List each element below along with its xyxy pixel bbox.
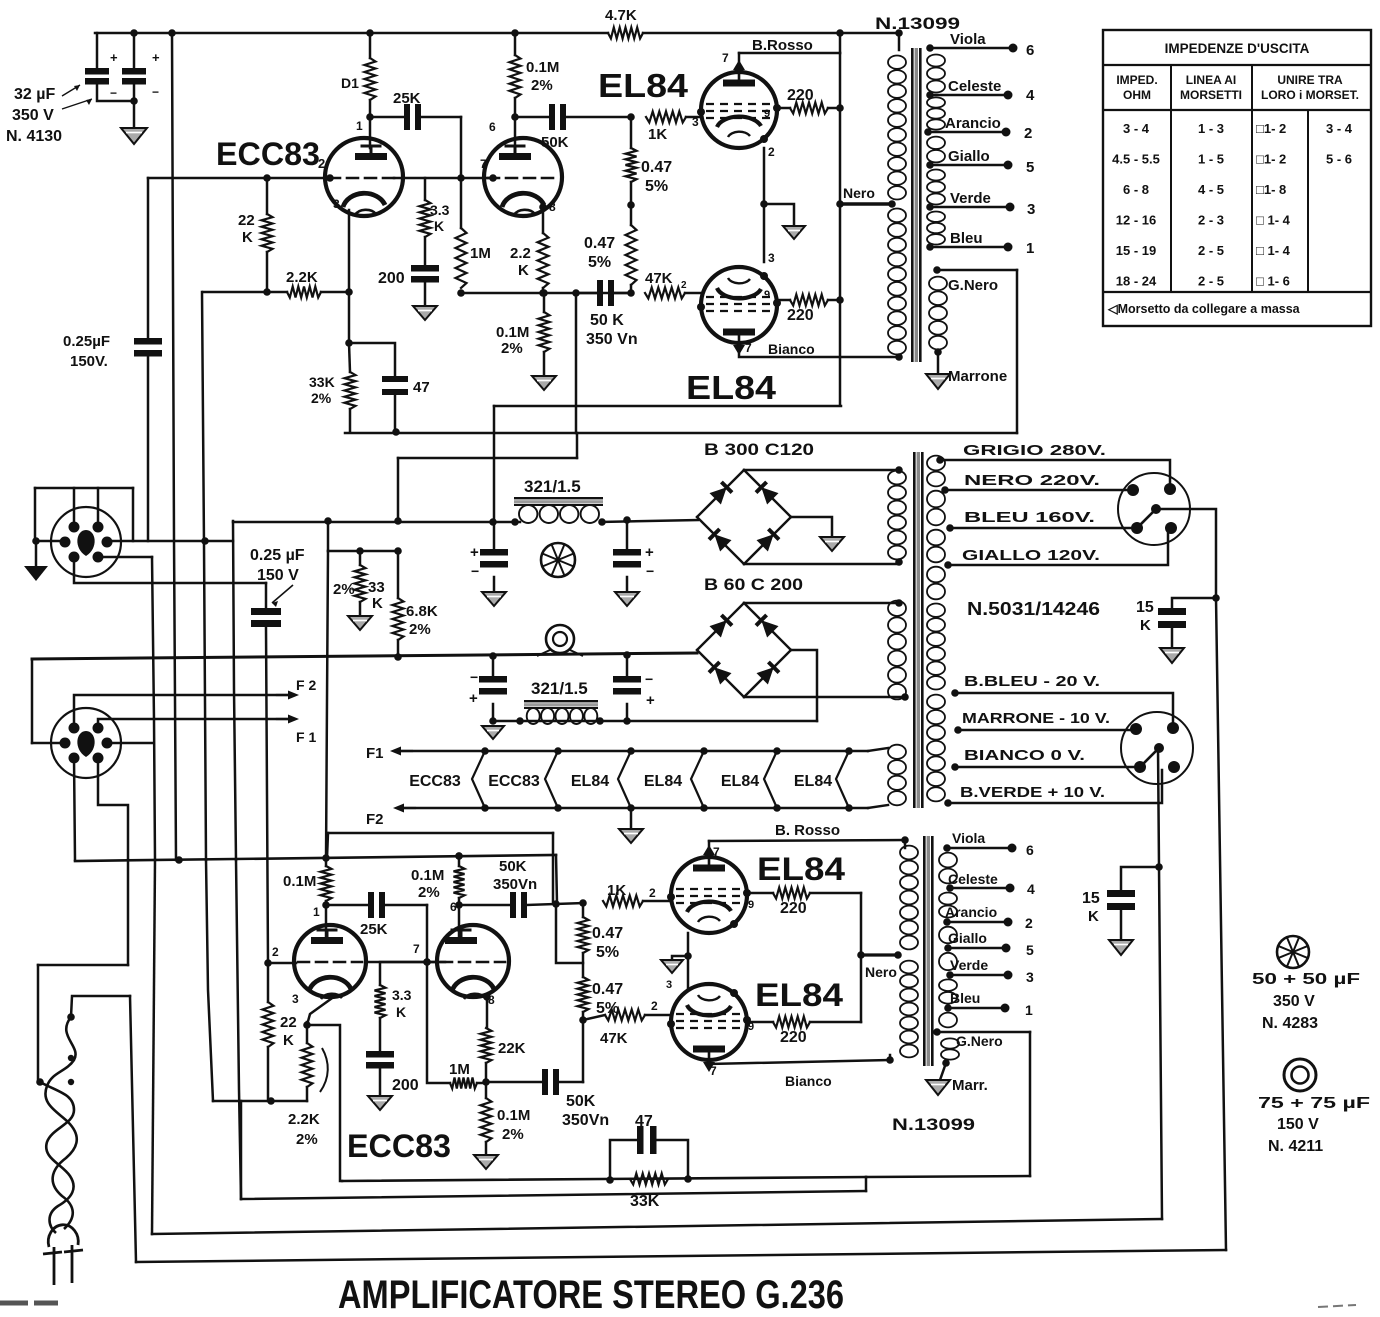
svg-text:AMPLIFICATORE STEREO G.236: AMPLIFICATORE STEREO G.236 (338, 1273, 844, 1317)
svg-text:□ 1- 4: □ 1- 4 (1256, 243, 1291, 258)
wire (898, 33, 901, 50)
junction (684, 1175, 692, 1183)
wire (614, 292, 631, 295)
svg-text:K: K (283, 1032, 294, 1049)
junction (627, 289, 635, 297)
junction (836, 200, 844, 208)
svg-text:0.1M: 0.1M (496, 324, 529, 341)
svg-text:33K: 33K (309, 374, 335, 390)
svg-text:2%: 2% (311, 390, 332, 406)
resistor 1M lower (450, 1078, 477, 1089)
svg-text:2: 2 (318, 156, 325, 171)
wire (267, 1047, 270, 1101)
svg-text:3: 3 (768, 251, 775, 265)
ground filter cap right (615, 592, 639, 606)
wire (552, 833, 555, 903)
svg-text:□ 1- 4: □ 1- 4 (1256, 213, 1291, 228)
wire box right edge (1016, 270, 1019, 433)
wire (385, 904, 427, 907)
junction (1002, 128, 1011, 137)
ground heater (619, 829, 643, 843)
resistor 0.1M lower lead (325, 861, 328, 866)
wire (349, 343, 350, 372)
resistor 0.1M 2% lower (454, 866, 465, 898)
resistor 0.47 5% b (626, 225, 637, 285)
svg-text:5: 5 (1026, 942, 1034, 958)
wire feed vertical x=576 (575, 293, 578, 433)
wire cathode lead t1 (348, 210, 351, 292)
junction (489, 652, 497, 660)
ground 15K (1160, 648, 1184, 663)
leader arrow (272, 585, 293, 603)
junction (836, 104, 844, 112)
choke L2 winding (527, 708, 540, 724)
wire heater divider (764, 751, 777, 808)
junction (455, 852, 463, 860)
svg-text:G.Nero: G.Nero (956, 1033, 1003, 1049)
wire socket1 bottom-left pin (74, 557, 266, 583)
svg-text:UNIRE TRA: UNIRE TRA (1277, 73, 1343, 87)
wire V1 cathode to V2 (763, 148, 766, 262)
svg-text:7: 7 (722, 51, 729, 65)
svg-text:0.25µF: 0.25µF (63, 333, 110, 350)
wire tap Viola 2 (947, 847, 1012, 850)
svg-text:LORO i MORSET.: LORO i MORSET. (1261, 88, 1359, 102)
wire 50K cap right (566, 116, 631, 119)
svg-text:IMPEDENZE D'USCITA: IMPEDENZE D'USCITA (1165, 41, 1310, 56)
corner scrap text (0, 1301, 58, 1306)
svg-text:5%: 5% (596, 1000, 619, 1017)
svg-text:N.5031/14246: N.5031/14246 (967, 599, 1100, 619)
junction (1008, 844, 1017, 853)
wire plate resistor V3 (747, 892, 773, 895)
resistor 47K upper (645, 288, 685, 299)
resistor 2.2K upper (287, 287, 321, 298)
svg-text:K: K (372, 595, 383, 612)
capacitor 47 feedback (637, 1126, 644, 1154)
junction (951, 689, 959, 697)
capacitor filter - right (613, 676, 641, 683)
svg-text:IMPED.: IMPED. (1116, 73, 1157, 87)
ground Marrone (926, 374, 950, 389)
svg-text:3: 3 (333, 197, 340, 211)
junction (954, 726, 962, 734)
svg-text:350 V: 350 V (12, 107, 54, 124)
wire 50K cap2 lower (486, 1081, 542, 1084)
power cord twisted pair (45, 1017, 76, 1229)
junction (68, 1079, 74, 1085)
svg-text:350Vn: 350Vn (493, 876, 537, 893)
wire (582, 903, 585, 917)
svg-text:G.Nero: G.Nero (948, 277, 998, 294)
svg-text:5%: 5% (645, 178, 668, 195)
junction (322, 901, 330, 909)
svg-text:N. 4130: N. 4130 (6, 128, 62, 145)
svg-text:2: 2 (768, 145, 775, 159)
wire (397, 640, 400, 657)
wire choke2 node (493, 720, 817, 723)
svg-text:33: 33 (368, 579, 385, 596)
svg-text:K: K (518, 262, 529, 279)
junction (901, 693, 909, 701)
resistor 4.7K (608, 28, 643, 39)
resistor 2.2K 2% lower (302, 1043, 313, 1087)
junction (1004, 91, 1013, 100)
wire (133, 85, 136, 129)
svg-text:Nero: Nero (843, 185, 875, 201)
wire tap Viola (930, 47, 1013, 50)
junction (579, 1016, 587, 1024)
ground 33K (348, 616, 372, 630)
svg-text:1: 1 (313, 905, 320, 919)
resistor 220 V4 (773, 1017, 810, 1028)
resistor 3.3K lower (375, 985, 386, 1018)
wire (348, 292, 351, 343)
wire (542, 288, 545, 293)
wire Marrone (937, 352, 940, 374)
wire (685, 292, 701, 295)
wire B+ rail to output transformer (643, 32, 899, 35)
resistor 33K 2% mid (355, 565, 366, 602)
junction (356, 547, 364, 555)
svg-text:47: 47 (413, 379, 430, 396)
wire box2 bottom (866, 1176, 1030, 1177)
junction (1002, 944, 1011, 953)
junction (598, 518, 606, 526)
heater winding (888, 745, 906, 759)
wire cathode t3 (307, 996, 335, 1025)
output transformer T1 N.13099 (888, 48, 947, 362)
wire heater divider (545, 751, 558, 808)
junction (423, 958, 431, 966)
wire cathodes V3V4 (687, 933, 690, 990)
svg-text:7: 7 (480, 157, 487, 171)
junction (1006, 203, 1015, 212)
junction (901, 836, 909, 844)
svg-text:1M: 1M (449, 1061, 470, 1078)
junction (540, 289, 548, 297)
svg-text:350 Vn: 350 Vn (586, 331, 638, 348)
svg-text:EL84: EL84 (598, 67, 689, 104)
wire (379, 1068, 382, 1096)
wire (543, 352, 546, 376)
ground cathodes lower (661, 960, 683, 973)
svg-text:8: 8 (549, 200, 556, 214)
wire (868, 805, 888, 808)
svg-text:6: 6 (489, 120, 496, 134)
wire grid interstage lower (366, 961, 437, 964)
svg-text:Bianco: Bianco (768, 341, 815, 357)
arrow F1 socket (277, 718, 291, 720)
wire (97, 85, 134, 102)
junction (944, 799, 952, 807)
curved arrow (320, 1048, 328, 1092)
junction (627, 747, 635, 755)
wire plate lead t4 (458, 905, 461, 938)
wire (828, 107, 840, 110)
svg-text:2: 2 (681, 280, 687, 291)
junction (933, 1028, 941, 1036)
junction (943, 918, 951, 926)
wire (34, 488, 37, 541)
resistor 33K feedback (630, 1174, 668, 1185)
junction (554, 804, 562, 812)
wire Nero tap thick (840, 202, 892, 205)
svg-text:Marrone: Marrone (948, 368, 1007, 385)
wire F2 rail (405, 807, 868, 810)
junction (926, 203, 934, 211)
wire socket2 bottom-left pin (74, 758, 75, 860)
wire plate lead t3 (325, 905, 328, 938)
leader arrows (62, 85, 92, 109)
svg-text:+: + (110, 50, 118, 65)
junction (606, 1176, 614, 1184)
resistor 0.1M 2% upper (510, 55, 521, 98)
svg-text:1: 1 (356, 119, 363, 133)
wire socket2 left pin (32, 742, 65, 745)
svg-text:K: K (396, 1004, 406, 1020)
wire (744, 696, 905, 699)
wire plate V3 to transformer (709, 840, 905, 841)
svg-text:32 µF: 32 µF (14, 86, 55, 103)
filament voltage selector (1121, 712, 1193, 784)
junction (392, 428, 400, 436)
resistor 1K upper (646, 112, 686, 123)
wire cathode bus lower (213, 1100, 307, 1103)
svg-text:−: − (470, 669, 478, 685)
junction (1004, 971, 1013, 980)
svg-text:3: 3 (666, 979, 672, 991)
capacitor filter - left (479, 676, 507, 683)
svg-text:7: 7 (710, 1064, 717, 1078)
wire (686, 116, 701, 119)
capacitor 32uF #1 lead (96, 33, 99, 68)
junction (516, 717, 524, 725)
wire (630, 182, 633, 225)
wire F1 from socket (98, 719, 291, 728)
svg-text:2 - 5: 2 - 5 (1198, 274, 1224, 289)
wire (643, 900, 671, 903)
junction (700, 804, 708, 812)
wire cathode ground stub (764, 204, 794, 226)
resistor 0.1M 2% tail (539, 312, 550, 352)
choke L1 core (514, 497, 603, 499)
svg-text:EL84: EL84 (721, 773, 759, 790)
wire bottom return 2 (152, 1219, 1162, 1234)
junction (394, 653, 402, 661)
junction (1004, 161, 1013, 170)
junction (836, 29, 844, 37)
wire (427, 962, 450, 1083)
wire tap MARRONE (958, 729, 1138, 732)
ground filter cap (482, 592, 506, 606)
svg-text:EL84: EL84 (757, 851, 845, 887)
svg-text:5: 5 (1026, 159, 1034, 176)
capacitor lead (626, 520, 629, 549)
resistor 3.3K upper (420, 200, 431, 237)
svg-text:OHM: OHM (1123, 88, 1151, 102)
svg-text:Celeste: Celeste (948, 871, 998, 887)
svg-text:ECC83: ECC83 (347, 1128, 451, 1164)
svg-text:0.47: 0.47 (592, 981, 623, 998)
wire (492, 704, 495, 721)
svg-text:K: K (1088, 908, 1099, 925)
wire (630, 808, 633, 829)
svg-text:220: 220 (780, 900, 807, 917)
wire grid drop t2 (460, 117, 463, 178)
svg-text:3: 3 (292, 992, 299, 1006)
svg-text:1K: 1K (607, 882, 626, 899)
junction (773, 747, 781, 755)
wire (556, 855, 557, 903)
wire (868, 748, 888, 751)
wire (485, 1063, 488, 1082)
junction (894, 951, 902, 959)
junction (67, 1013, 75, 1021)
pentode EL84 V3 (667, 845, 751, 933)
wire (266, 252, 269, 292)
junction (303, 1021, 311, 1029)
resistor 0.1M 2% lower lead (458, 856, 461, 866)
wire (458, 898, 461, 905)
wire lower amp top bus (75, 855, 556, 861)
resistor 1M upper (456, 228, 467, 288)
wire (889, 1055, 892, 1060)
svg-text:4.7K: 4.7K (605, 7, 637, 24)
junction (32, 537, 40, 545)
capacitor 50K 350Vn lower (510, 892, 516, 918)
svg-text:5 - 6: 5 - 6 (1326, 152, 1352, 167)
wire (559, 1081, 583, 1084)
wire (152, 860, 155, 1234)
svg-text:+: + (645, 544, 654, 561)
wire (327, 833, 328, 858)
svg-text:Celeste: Celeste (948, 78, 1001, 95)
resistor D1 lead (369, 33, 372, 58)
junction (623, 516, 631, 524)
svg-text:+: + (646, 692, 655, 709)
svg-text:4.5 - 5.5: 4.5 - 5.5 (1112, 152, 1160, 167)
triode ECC83 U1b (484, 138, 562, 216)
svg-text:B.VERDE + 10 V.: B.VERDE + 10 V. (960, 784, 1105, 801)
wire heater vertical x=153 (152, 557, 155, 860)
mains plug (48, 1225, 78, 1247)
wire socket1 top box (35, 487, 133, 490)
svg-text:GRIGIO 280V.: GRIGIO 280V. (963, 442, 1106, 459)
junction (457, 289, 465, 297)
wire 47 cap branch (610, 1140, 637, 1180)
capacitor 32uF #2 lead (133, 33, 136, 68)
wire (1171, 628, 1174, 648)
junction (267, 1097, 275, 1105)
wire 25K cap right (421, 116, 461, 119)
wire choke node (233, 521, 520, 524)
svg-text:BLEU 160V.: BLEU 160V. (964, 509, 1095, 526)
svg-text:0.47: 0.47 (584, 235, 615, 252)
capacitor 0.25uF 150V input2 (251, 608, 281, 615)
resistor 220 V2 (790, 295, 828, 306)
wire (1121, 867, 1159, 890)
svg-text:3 - 4: 3 - 4 (1326, 121, 1353, 136)
wire (582, 953, 585, 977)
wire tap Bleu (930, 246, 1008, 249)
ground 0.1M lower (474, 1155, 498, 1169)
svg-text:2 - 3: 2 - 3 (1198, 213, 1224, 228)
wire rail A (494, 405, 841, 408)
wire (424, 237, 427, 265)
junction (857, 951, 865, 959)
svg-text:F1: F1 (366, 745, 384, 762)
capacitor 25K lower (368, 892, 374, 918)
junction (345, 339, 353, 347)
junction (946, 971, 954, 979)
wire right outer vertical (1216, 598, 1226, 1250)
svg-text:25K: 25K (360, 921, 388, 938)
wire tap Celeste 2 (950, 887, 1010, 890)
svg-text:1: 1 (1026, 240, 1034, 257)
svg-text:9: 9 (764, 289, 770, 301)
svg-text:47K: 47K (600, 1030, 628, 1047)
wire grid drop t4 (426, 905, 429, 962)
junction (926, 44, 934, 52)
svg-text:2: 2 (1025, 915, 1033, 931)
svg-text:4 - 5: 4 - 5 (1198, 182, 1224, 197)
junction (552, 900, 560, 908)
arrow F1 (398, 750, 412, 752)
junction (886, 1056, 894, 1064)
wire cathode bottom bus (461, 292, 631, 295)
svg-text:6.8K: 6.8K (406, 603, 438, 620)
svg-text:Arancio: Arancio (945, 904, 997, 920)
junction (264, 959, 272, 967)
svg-text:□ 1- 6: □ 1- 6 (1256, 274, 1290, 289)
wire F1 rail (402, 750, 868, 753)
wire G.Nero 2 (937, 1031, 1030, 1034)
svg-text:2: 2 (272, 945, 279, 959)
wire (379, 1018, 382, 1051)
ground 15K lower (1109, 940, 1133, 955)
capacitor 200 upper (411, 265, 439, 272)
wire (31, 659, 34, 743)
wire (424, 283, 427, 307)
svg-text:1: 1 (1025, 1002, 1033, 1018)
svg-text:2.2K: 2.2K (288, 1111, 320, 1128)
junction (946, 884, 954, 892)
svg-text:6 - 8: 6 - 8 (1123, 182, 1149, 197)
junction (933, 266, 941, 274)
resistor 0.1M 2% lead (514, 33, 517, 55)
svg-text:7: 7 (713, 845, 720, 859)
junction (263, 174, 271, 182)
wire (130, 996, 136, 1262)
svg-text:9: 9 (748, 899, 754, 911)
junction (596, 717, 604, 725)
svg-text:350 V: 350 V (1273, 993, 1315, 1010)
junction (943, 844, 951, 852)
wire (626, 577, 629, 592)
wire grid line lower (268, 962, 296, 965)
junction (926, 91, 934, 99)
wire tap Giallo (930, 164, 1008, 167)
wire (865, 1177, 868, 1191)
svg-text:3: 3 (692, 115, 699, 129)
wire screen rail lower (860, 893, 863, 1022)
svg-text:50 + 50 µF: 50 + 50 µF (1252, 971, 1360, 988)
wire (321, 291, 349, 294)
wire cathode t4 (486, 997, 489, 1028)
junction (345, 288, 353, 296)
svg-text:47: 47 (635, 1113, 653, 1130)
